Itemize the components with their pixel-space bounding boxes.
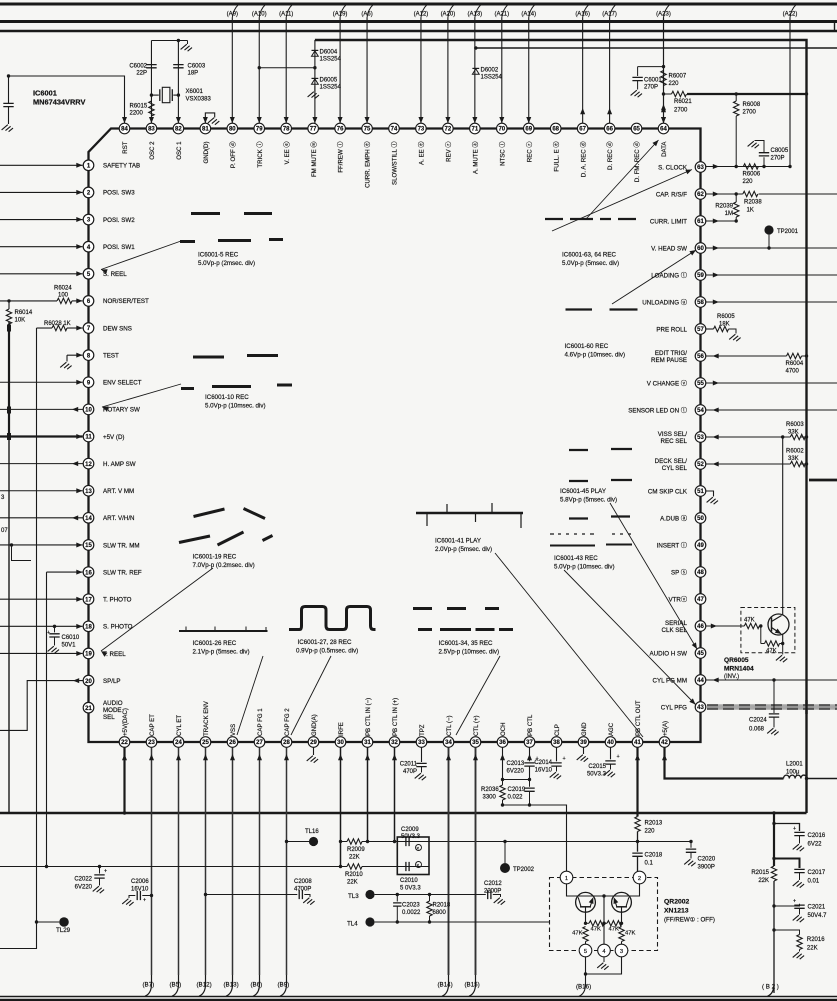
svg-text:DATA: DATA [661, 141, 668, 157]
svg-text:C2019: C2019 [508, 787, 526, 793]
svg-text:30: 30 [337, 740, 344, 746]
svg-text:D. FM. REC ⓓ: D. FM. REC ⓓ [633, 142, 641, 183]
svg-text:(A20): (A20) [441, 11, 456, 17]
svg-text:64: 64 [660, 127, 667, 133]
wire pin 19 from left edge [0, 652, 83, 654]
svg-text:REM PAUSE: REM PAUSE [651, 357, 687, 364]
svg-text:44: 44 [697, 678, 704, 684]
svg-text:83: 83 [148, 127, 155, 133]
svg-text:(A16): (A16) [575, 11, 590, 17]
svg-text:GND(A): GND(A) [311, 714, 318, 736]
wire TL16 row y841.5 [341, 841, 692, 843]
pin 4 QR2002 [598, 944, 611, 957]
wire bottom rail y1000 [0, 999, 837, 1001]
svg-text:61: 61 [697, 219, 704, 225]
svg-text:CAP FG 1: CAP FG 1 [257, 708, 264, 736]
pin 75 CURR. EMPH ⓔ [362, 123, 373, 134]
resistor R6006 220 [743, 164, 758, 169]
ground (C2021) [793, 915, 804, 922]
svg-text:DECK SEL/: DECK SEL/ [655, 458, 688, 465]
svg-text:63: 63 [697, 165, 704, 171]
svg-text:76: 76 [337, 127, 344, 133]
wire left vertical x9 [8, 301, 10, 309]
svg-text:22K: 22K [807, 946, 818, 952]
crystal X6001 VSX0383 [151, 94, 158, 96]
wire x36.5 vertical (pin 7 net) to bottom left [0, 328, 37, 948]
svg-text:47K: 47K [609, 927, 619, 933]
resistor 47K (QR6005 base) [744, 623, 759, 628]
svg-text:22K: 22K [349, 855, 360, 861]
pin 27 CAP FG 1 [254, 737, 265, 748]
resistor R2009 22K [347, 839, 362, 844]
svg-text:C6003: C6003 [188, 64, 206, 70]
svg-text:AGC: AGC [608, 722, 615, 736]
resistor R6005 18K (pin 57 PRE ROLL) [706, 328, 714, 330]
wire pin 22 +5V(DAC) to bus [123, 748, 125, 814]
svg-text:SLW TR. REF: SLW TR. REF [103, 569, 142, 576]
svg-text:2: 2 [638, 876, 641, 882]
svg-text:C2008: C2008 [294, 879, 312, 885]
svg-text:(A21): (A21) [494, 11, 509, 17]
svg-text:(FF/REW① : OFF): (FF/REW① : OFF) [664, 917, 715, 924]
wire pin 41 PB CTL OUT down (thick) [636, 748, 638, 817]
annotation line to pins 26 [237, 656, 263, 735]
pin 63 S. CLOCK [695, 162, 706, 173]
pin 37 PB CTL [524, 737, 535, 748]
svg-text:VSX0383: VSX0383 [186, 97, 212, 103]
svg-text:19: 19 [85, 652, 92, 658]
svg-text:C6010: C6010 [62, 635, 80, 641]
svg-text:R2009: R2009 [347, 847, 365, 853]
svg-text:S. REEL: S. REEL [103, 271, 127, 278]
test point TL16 [285, 840, 288, 843]
capacitor C2011 470P [416, 763, 426, 766]
pin 23 CAP ET [146, 737, 157, 748]
pin 33 TPZ [416, 737, 427, 748]
svg-text:+5V (D): +5V (D) [103, 434, 125, 441]
svg-text:67: 67 [579, 127, 586, 133]
transistor block QR2002 XN1213 [550, 878, 658, 951]
resistor R6021 2700 [664, 93, 672, 95]
svg-text:ROTARY SW: ROTARY SW [103, 407, 140, 414]
svg-text:+: + [793, 899, 796, 905]
resistor R6015 2200 [149, 101, 154, 116]
svg-text:27: 27 [256, 740, 263, 746]
svg-text:R6021: R6021 [674, 99, 692, 105]
svg-text:58: 58 [697, 300, 704, 306]
svg-text:72: 72 [445, 127, 452, 133]
pin 79 TRICK ⓘ [254, 123, 265, 134]
annotation line to pin 45 [610, 503, 697, 649]
svg-text:57: 57 [697, 327, 704, 333]
wire QR2002 pin3 to pin5 join [586, 957, 622, 974]
test point TL3 line [365, 890, 374, 899]
waveform IC6001-41 PLAY [416, 512, 523, 515]
svg-text:(B9): (B9) [278, 982, 290, 989]
waveform IC6001-45 PLAY [569, 449, 632, 450]
svg-text:H. AMP SW: H. AMP SW [103, 461, 136, 468]
svg-text:32: 32 [391, 740, 398, 746]
pin 17 T. PHOTO [83, 594, 94, 605]
pin 4 POSI. SW1 [83, 241, 94, 252]
svg-text:2.1Vp-p (5msec. div): 2.1Vp-p (5msec. div) [193, 649, 250, 656]
wire supply rail y40 with right drop to x806.5 [315, 40, 807, 813]
svg-text:D6004: D6004 [320, 50, 338, 56]
resistor R6024 100 (pin 6) [0, 300, 57, 302]
svg-text:34: 34 [445, 740, 452, 746]
pin 32 PB CTL IN (+) [389, 737, 400, 748]
wire pin 81 GND(D) hook [205, 113, 214, 123]
wire pin 10 output to left edge [0, 408, 83, 410]
resistor R2015 22K [771, 866, 776, 881]
svg-text:R2016: R2016 [807, 937, 825, 943]
wire pin 11 +5V(D) feed (thick) [0, 435, 83, 437]
svg-text:4700P: 4700P [294, 887, 311, 893]
wire pin 44 CYL PG MM row [706, 679, 837, 681]
pin 70 NTSC ⓘ [497, 123, 508, 134]
wire pin 31 stub [367, 748, 369, 842]
annotation line to pins 34,35 [456, 656, 500, 735]
wire pin 59 LOADING row [706, 274, 837, 276]
diode D6005 1SS254 [312, 79, 319, 84]
wire pin 33 TPZ with C2011 [421, 748, 423, 763]
ground (C6001) [631, 90, 642, 97]
wire pin 1 from left edge [0, 164, 83, 166]
pin 54 SENSOR LED ON ⓛ [695, 405, 706, 416]
svg-text:CAP FG 2: CAP FG 2 [284, 708, 291, 736]
svg-text:22P: 22P [136, 71, 147, 77]
svg-text:25: 25 [202, 740, 209, 746]
svg-text:PB CTL: PB CTL [527, 714, 534, 736]
wire pin 8 TEST ground stub [67, 355, 83, 361]
ground (QR6005 emitter) [782, 644, 784, 655]
svg-text:SEL: SEL [103, 714, 115, 721]
svg-text:45: 45 [697, 651, 704, 657]
svg-text:C2015: C2015 [588, 764, 606, 770]
resistor R2016 22K [772, 928, 775, 931]
svg-text:SLOW/STILL ⓘ: SLOW/STILL ⓘ [391, 142, 399, 185]
svg-text:R6024: R6024 [54, 286, 72, 292]
ground (C2017) [793, 881, 804, 888]
svg-text:24: 24 [175, 740, 182, 746]
capacitor C2015 50V3.3 on pin 40 [610, 748, 612, 760]
wire pin 16 from lower bus [47, 571, 83, 573]
svg-text:60: 60 [697, 246, 704, 252]
pin 12 H. AMP SW [83, 458, 94, 469]
svg-text:5.0Vp-p (10msec. div): 5.0Vp-p (10msec. div) [554, 564, 615, 571]
svg-text:QR6005: QR6005 [724, 657, 749, 664]
svg-text:R6015: R6015 [130, 104, 148, 110]
capacitor C2012 2200P [488, 890, 491, 899]
resistor 47K (QR2002 left leg) [583, 927, 588, 942]
wire pin 61 CURR.LIMIT row [706, 220, 736, 222]
svg-text:220: 220 [669, 81, 680, 87]
pin 34 CTL (−) [443, 737, 454, 748]
annotation line to pin 5 [101, 241, 181, 270]
pin 49 INSERT ⓘ [695, 540, 706, 551]
pin 15 SLW TR. MM [83, 540, 94, 551]
wire thick tee y858.5 [774, 859, 800, 869]
svg-text:CYL SEL: CYL SEL [662, 465, 688, 472]
annotation line to pins 27,28 [291, 656, 331, 735]
ground (pin 8) [60, 362, 71, 369]
svg-text:33K: 33K [788, 430, 799, 436]
pin 5 QR2002 [579, 944, 592, 957]
svg-text:R2015: R2015 [751, 870, 769, 876]
svg-text:10: 10 [85, 408, 92, 414]
svg-text:51: 51 [697, 489, 704, 495]
waveform IC6001-5 REC [191, 212, 272, 215]
svg-text:4700: 4700 [786, 369, 800, 375]
pin 51 CM SKIP CLK [695, 486, 706, 497]
wire QR2002 pin2 drop [632, 884, 640, 896]
svg-text:0.1: 0.1 [645, 861, 654, 867]
annotation line to pin 19 [101, 568, 213, 651]
wire pin 51 CM SKIP CLK ground stub [706, 491, 714, 497]
svg-text:REC SEL: REC SEL [661, 438, 688, 445]
svg-text:NTSC ⓘ: NTSC ⓘ [498, 142, 506, 166]
svg-text:REC ⓡ: REC ⓡ [525, 142, 533, 163]
annotation line to pin 63 [552, 170, 692, 232]
resistor R2010 22K [347, 864, 362, 869]
waveform IC6001-19 REC [179, 509, 273, 546]
svg-text:84: 84 [121, 127, 128, 133]
svg-text:1SS254: 1SS254 [320, 85, 342, 91]
wire (A16) to pin 67 [582, 18, 584, 124]
resistor R6014 10K [6, 309, 11, 324]
svg-text:2700: 2700 [674, 108, 688, 114]
test point TL29 [59, 917, 69, 927]
svg-text:SP/LP: SP/LP [103, 678, 121, 685]
svg-text:POSI. SW1: POSI. SW1 [103, 244, 135, 251]
capacitor C2018 0.1 [632, 853, 642, 856]
pin 65 D. FM. REC [631, 123, 642, 134]
svg-text:07: 07 [1, 528, 8, 534]
svg-text:AUDIO: AUDIO [103, 700, 123, 707]
pin 3 QR2002 [615, 944, 628, 957]
wire (A13) to pin 71 [474, 18, 476, 124]
svg-text:CYL ET: CYL ET [176, 715, 183, 736]
wire pin 52 DECK SEL row [706, 463, 807, 465]
svg-text:23: 23 [148, 740, 155, 746]
pin 50 A.DUB ⓐ [695, 513, 706, 524]
ground (C2014) [550, 772, 561, 779]
resistor 47K (QR6005 base-emitter) [761, 643, 765, 645]
ground (C6010) [48, 646, 59, 653]
pin 9 ENV SELECT [83, 377, 94, 388]
svg-text:GND(D): GND(D) [203, 142, 210, 164]
svg-text:P. OFF ⓓ: P. OFF ⓓ [229, 142, 237, 169]
svg-text:(B14): (B14) [438, 982, 453, 989]
svg-text:62: 62 [697, 192, 704, 198]
resistor 47K (QR2002 right leg) [619, 927, 624, 942]
svg-text:(A22): (A22) [783, 11, 798, 17]
capacitor C2021 50V4.7 [772, 904, 775, 907]
svg-text:IC6001-63, 64 REC: IC6001-63, 64 REC [562, 252, 617, 259]
svg-text:(A6): (A6) [361, 11, 372, 17]
wire vertical x774 filter chain [773, 813, 775, 866]
pin 55 V CHANGE ⓥ [695, 378, 706, 389]
svg-text:CLK SEL: CLK SEL [662, 627, 688, 634]
pin 1 SAFETY TAB [83, 160, 94, 171]
svg-text:TL4: TL4 [347, 921, 358, 928]
svg-text:49: 49 [697, 543, 704, 549]
svg-text:PRE ROLL: PRE ROLL [656, 326, 687, 333]
svg-text:18K: 18K [719, 322, 730, 328]
svg-text:TRICK ⓘ: TRICK ⓘ [256, 142, 264, 168]
svg-text:2200: 2200 [130, 111, 144, 117]
svg-text:R6003: R6003 [786, 422, 804, 428]
pin 44 CYL PG MM [695, 675, 706, 686]
pin 18 S. PHOTO [83, 621, 94, 632]
svg-text:6800: 6800 [433, 910, 447, 916]
pin 71 A. MUTE ⓐ [470, 123, 481, 134]
pin 78 V. EE ⓔ [281, 123, 292, 134]
wire bottom rail y996.5 [0, 996, 837, 998]
svg-text:(A17): (A17) [602, 11, 617, 17]
capacitor C2010 50V3.3 [406, 862, 409, 871]
svg-text:(A11): (A11) [279, 11, 293, 17]
svg-text:18: 18 [85, 625, 92, 631]
ground (C2012) [494, 898, 505, 905]
svg-text:50V3.3: 50V3.3 [401, 834, 421, 840]
svg-text:71: 71 [472, 127, 479, 133]
svg-text:1SS254: 1SS254 [481, 75, 503, 81]
wire pin 32 stub [394, 748, 396, 842]
pin 48 SP ⓢ [695, 567, 706, 578]
wire pin 3 from left edge [0, 219, 83, 221]
svg-text:VSS: VSS [230, 724, 237, 736]
svg-text:INSERT ⓘ: INSERT ⓘ [657, 541, 687, 549]
pin 81 GND(D) [200, 123, 211, 134]
svg-text:CURR. EMPH ⓔ: CURR. EMPH ⓔ [364, 142, 372, 188]
pin 52 DECK SEL/ [695, 459, 706, 470]
svg-text:TEST: TEST [103, 352, 119, 359]
svg-text:12: 12 [85, 462, 92, 468]
capacitor C2017 0.01 [794, 869, 804, 872]
ground (C2020) [684, 859, 695, 866]
svg-text:33: 33 [418, 740, 425, 746]
wire node row y779.5 [503, 779, 530, 781]
svg-text:40: 40 [607, 740, 614, 746]
svg-text:(A12): (A12) [414, 11, 429, 17]
capacitor C2016 6V22 [774, 824, 800, 832]
svg-text:(B12): (B12) [197, 982, 212, 989]
pin 26 VSS [227, 737, 238, 748]
resistor 47K (QR2002 a-b left) [584, 922, 587, 925]
wire pin 39 GND ground [583, 748, 585, 755]
ground (pin 51) [707, 497, 718, 504]
svg-text:REV ⓡ: REV ⓡ [445, 142, 453, 162]
resistor R2018 6800 [429, 895, 431, 902]
waveform IC6001-10 REC [193, 356, 278, 358]
svg-text:470P: 470P [403, 769, 417, 775]
svg-text:(INV.): (INV.) [724, 674, 739, 680]
svg-text:OCH: OCH [500, 722, 507, 736]
svg-text:47K: 47K [766, 649, 777, 655]
svg-text:C2009: C2009 [401, 827, 419, 833]
svg-text:66: 66 [606, 127, 613, 133]
svg-text:PB CTL IN (+): PB CTL IN (+) [392, 698, 399, 736]
test point TL4 line [365, 917, 374, 926]
pin 57 PRE ROLL [695, 324, 706, 335]
svg-text:OSC 2: OSC 2 [149, 141, 156, 160]
pin 58 UNLOADING ⓤ [695, 297, 706, 308]
svg-text:MN67434VRRV: MN67434VRRV [33, 98, 86, 107]
wire pin 35 CTL(+) to (B15) [475, 748, 477, 976]
svg-text:×: × [416, 863, 419, 869]
ground (RST cap) [2, 125, 13, 132]
pin 31 PB CTL IN (−) [362, 737, 373, 748]
svg-text:D6002: D6002 [481, 68, 499, 74]
svg-text:37: 37 [526, 740, 533, 746]
wire pin 42 +5(A) to L2001 node [665, 748, 784, 779]
svg-text:22K: 22K [347, 880, 358, 886]
svg-text:C2021: C2021 [808, 905, 826, 911]
svg-text:(B15): (B15) [465, 982, 480, 989]
capacitor C2013 6V220 on pin 37 [529, 748, 531, 762]
pin 69 REC ⓡ [523, 123, 534, 134]
svg-text:TL29: TL29 [56, 927, 71, 934]
wire pin 83 OSC2 branch [151, 41, 187, 124]
svg-text:81: 81 [202, 127, 209, 133]
svg-text:POSI. SW2: POSI. SW2 [103, 217, 135, 224]
svg-text:4.6Vp-p (10msec. div): 4.6Vp-p (10msec. div) [565, 352, 626, 359]
wire pin 43 CYL PFG shielded line to right edge [707, 704, 837, 710]
svg-text:50V1: 50V1 [62, 643, 77, 649]
pin 40 AGC [605, 737, 616, 748]
wire QR2002 pin1 drop [567, 884, 576, 896]
svg-text:270P: 270P [771, 156, 785, 162]
svg-text:A. EE ⓔ: A. EE ⓔ [418, 142, 426, 165]
svg-text:IC6001-43 REC: IC6001-43 REC [554, 555, 598, 562]
wire top bus line 1 [0, 3, 837, 6]
svg-text:FULL. E ⓔ: FULL. E ⓔ [552, 142, 560, 172]
wire top bus line 3 [0, 30, 837, 32]
svg-text:C2020: C2020 [698, 857, 716, 863]
wire pin 58 UNLOADING row [706, 301, 837, 303]
resistor R6028 1K (pin 7) [37, 327, 53, 329]
ground stub right of oscillator rail [187, 41, 189, 45]
pin 56 EDIT TRIG/ [695, 351, 706, 362]
ground (C2015) [604, 770, 615, 777]
ground (R6005) [729, 334, 740, 341]
svg-text:IC6001-60 REC: IC6001-60 REC [565, 343, 609, 350]
svg-text:D. REC ⓓ: D. REC ⓓ [606, 142, 614, 170]
svg-text:36: 36 [499, 740, 506, 746]
svg-text:33K: 33K [788, 456, 799, 462]
waveform IC6001-27,28 REC [289, 607, 376, 630]
svg-text:MODE: MODE [103, 707, 122, 714]
svg-text:80: 80 [229, 127, 236, 133]
wire pin 24 to (B5) [178, 748, 180, 976]
svg-text:FF/REW ⓘ: FF/REW ⓘ [337, 142, 345, 173]
svg-text:38: 38 [553, 740, 560, 746]
wire pin 20 SP/LP to lower left [0, 681, 83, 731]
annotation line to pin 60 [612, 250, 696, 304]
svg-text:6V22: 6V22 [808, 842, 823, 848]
pin 60 V. HEAD SW [695, 243, 706, 254]
pin 8 TEST [83, 350, 94, 361]
wire (A19) to pin 76 [339, 18, 341, 124]
svg-text:2.5Vp-p (10msec. div): 2.5Vp-p (10msec. div) [439, 649, 500, 656]
svg-text:11: 11 [85, 435, 92, 441]
svg-text:5.8Vp-p (5msec. div): 5.8Vp-p (5msec. div) [560, 497, 617, 504]
wire pin 2 from left edge [0, 191, 83, 193]
svg-text:C2006: C2006 [131, 879, 149, 885]
svg-text:53: 53 [697, 435, 704, 441]
svg-text:GND: GND [581, 722, 588, 736]
